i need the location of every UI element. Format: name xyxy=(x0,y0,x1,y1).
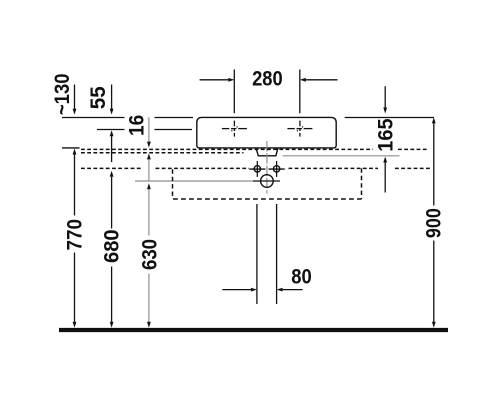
svg-text:680: 680 xyxy=(101,229,124,263)
reference line top-right (rim level, for 165/900) xyxy=(345,117,434,119)
drain hole circle xyxy=(261,175,274,188)
crosshair mounting hole right vertical xyxy=(276,161,278,177)
dimension line 55 xyxy=(111,85,113,109)
dimension 80 left arrow xyxy=(222,289,251,291)
reference line top-left right part xyxy=(155,117,194,119)
svg-text:280: 280 xyxy=(252,68,283,91)
dimension line 16 (gray shaft, black arrows) xyxy=(148,117,150,142)
extension line 280 right xyxy=(299,70,301,114)
gray line at 630 level xyxy=(135,180,253,182)
reference line 55-level right part xyxy=(155,129,193,131)
dimension 55 lower arrow xyxy=(110,130,114,136)
dimension line 680 xyxy=(110,171,114,177)
washbasin outline (front view) xyxy=(197,117,336,147)
dimension line 900 xyxy=(432,117,436,123)
svg-text:16: 16 xyxy=(126,115,149,136)
svg-text:~130: ~130 xyxy=(51,73,74,115)
crosshair mounting holes horizontal xyxy=(249,168,265,170)
svg-text:770: 770 xyxy=(63,219,86,251)
mounting hole left xyxy=(254,166,260,172)
hidden edge dashed line (countertop top) xyxy=(81,148,373,150)
dashed console rectangle left edge xyxy=(172,169,174,199)
hidden edge dashed line (countertop bottom, 16) xyxy=(81,152,244,154)
dimension line 630 (gray shaft, black arrows) xyxy=(147,183,151,189)
dimension line 165 upper xyxy=(384,86,386,107)
dashed console rectangle bottom edge xyxy=(173,198,362,200)
dimension line ~130 xyxy=(74,85,76,109)
extension line 80 right xyxy=(276,204,278,304)
hidden edge dashed line (siphon level 680) right part xyxy=(289,167,379,169)
tap hole cross left xyxy=(222,121,247,137)
tap hole cross right xyxy=(287,121,312,137)
hidden edge dashed line (siphon level 680) left part xyxy=(81,167,142,169)
reference line top-left (basin rim level) xyxy=(62,117,125,119)
dimension line 770 xyxy=(73,149,77,155)
gray line at drain bottom level (165 target) xyxy=(283,155,400,157)
svg-text:55: 55 xyxy=(87,86,110,109)
dimension 80 right arrow xyxy=(283,289,303,291)
mounting hole right xyxy=(273,166,279,172)
dimension 280 left arrow xyxy=(200,79,229,81)
dimension 280 right arrow xyxy=(306,79,338,81)
reference line 55-level left part xyxy=(97,129,125,131)
extension line 280 left xyxy=(233,70,235,114)
svg-text:165: 165 xyxy=(374,118,397,152)
dashed console rectangle right edge xyxy=(361,168,363,199)
dimension line 165 lower xyxy=(383,157,387,163)
drain trapezoid xyxy=(256,148,278,156)
crosshair mounting hole left vertical xyxy=(256,161,258,177)
reference line basin bottom level left xyxy=(62,147,80,149)
floor line xyxy=(59,328,448,332)
centerline vertical (gray) xyxy=(266,141,268,194)
extension line 80 left xyxy=(256,204,258,304)
svg-text:80: 80 xyxy=(291,265,312,288)
svg-text:630: 630 xyxy=(138,239,161,270)
svg-text:900: 900 xyxy=(423,208,446,238)
